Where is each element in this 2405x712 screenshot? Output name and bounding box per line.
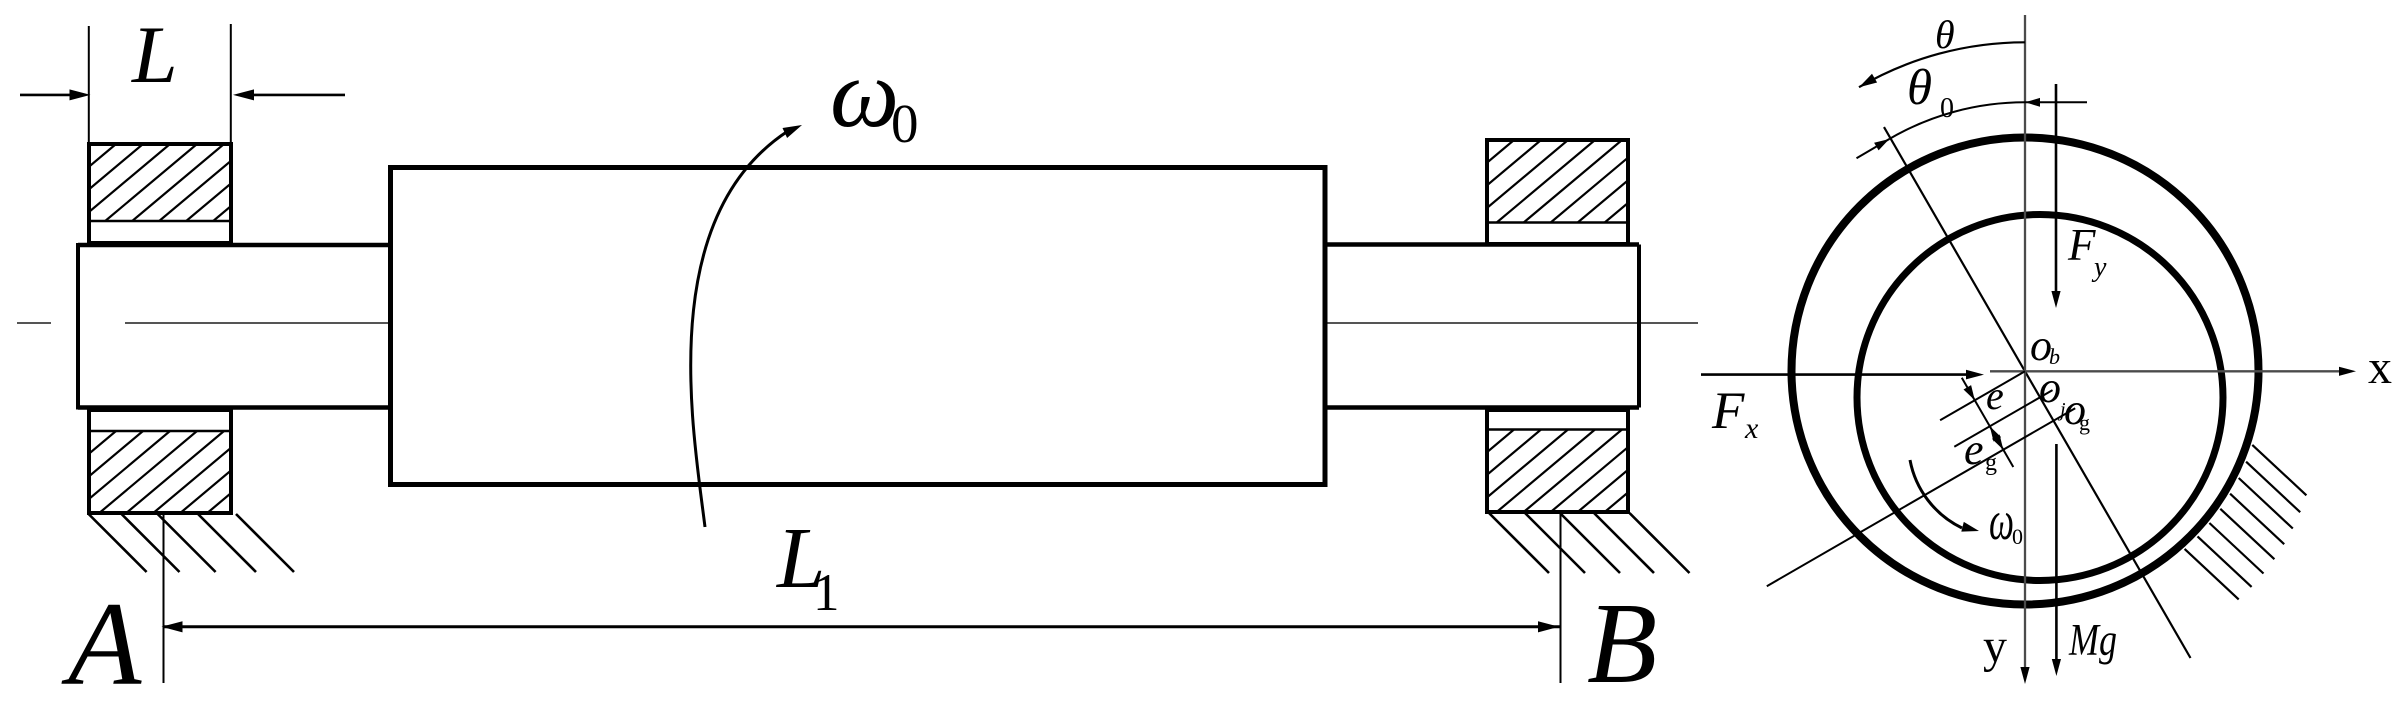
svg-text:y: y — [1983, 620, 2007, 673]
svg-text:0: 0 — [1940, 93, 1954, 124]
svg-text:F: F — [1711, 382, 1745, 440]
svg-text:e: e — [1986, 373, 2004, 418]
svg-text:0: 0 — [2012, 524, 2023, 549]
svg-text:x: x — [2368, 341, 2392, 394]
svg-text:e: e — [1964, 425, 1984, 474]
svg-text:L: L — [131, 9, 178, 100]
svg-text:o: o — [2039, 363, 2061, 412]
svg-text:ω: ω — [830, 40, 899, 148]
svg-text:B: B — [1587, 580, 1657, 707]
svg-text:y: y — [2091, 252, 2107, 283]
svg-text:1: 1 — [813, 564, 840, 622]
svg-text:Mg: Mg — [2068, 615, 2117, 665]
svg-text:0: 0 — [891, 93, 919, 154]
svg-text:A: A — [61, 577, 142, 707]
svg-text:θ: θ — [1935, 12, 1955, 57]
svg-text:g: g — [1985, 450, 1997, 476]
svg-text:θ: θ — [1907, 60, 1932, 116]
svg-text:x: x — [1744, 412, 1759, 445]
svg-text:g: g — [2079, 410, 2090, 435]
svg-text:ω: ω — [1989, 490, 2014, 551]
svg-text:F: F — [2067, 220, 2096, 270]
